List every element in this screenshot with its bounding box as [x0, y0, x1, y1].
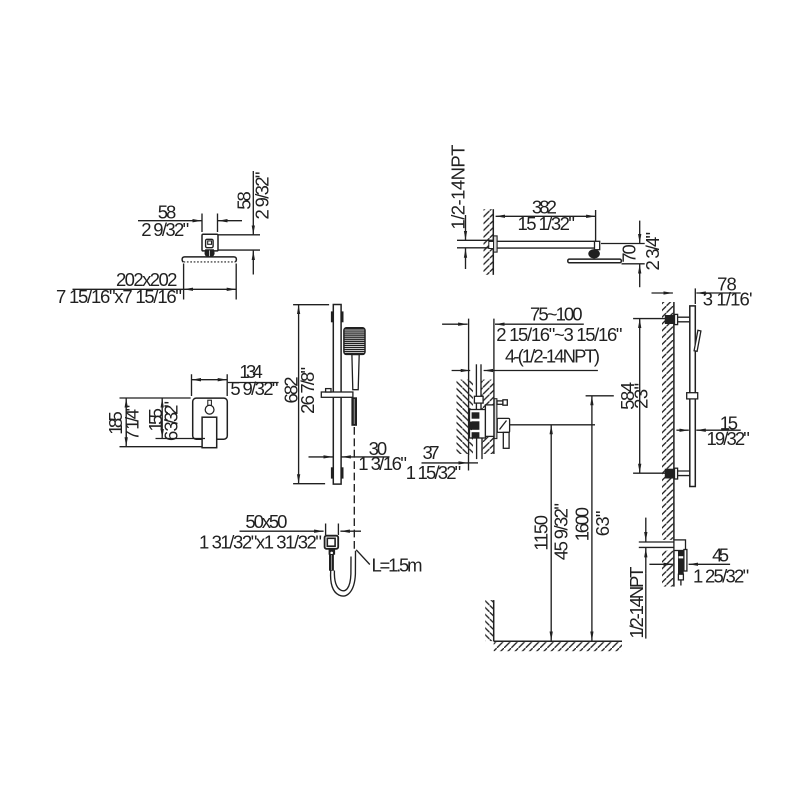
svg-text:1150: 1150 — [531, 515, 552, 551]
slider release knob — [326, 389, 331, 392]
dim 50x50: right arrow line — [340, 530, 361, 532]
dim 382: dimension line with outward arrows — [496, 215, 596, 217]
svg-text:7 15/16"x7 15/16": 7 15/16"x7 15/16" — [56, 286, 182, 307]
nut behind flange — [489, 242, 494, 249]
svg-text:L=1.5m: L=1.5m — [372, 554, 423, 575]
supply pipe bottom — [477, 438, 482, 459]
valve height extension line — [510, 424, 595, 426]
dim 185: dimension line — [125, 398, 127, 447]
diverter knob — [503, 400, 507, 405]
dim 1600: top tick — [586, 395, 614, 397]
dim 15: right arrow line — [696, 429, 740, 431]
supply pipe stub through wall — [457, 240, 497, 248]
trim plate (side, gray) — [494, 399, 497, 439]
svg-text:26 7/8": 26 7/8" — [297, 367, 318, 414]
flange inner detail — [208, 241, 212, 244]
dim 58 height: lower dimension line — [252, 251, 254, 275]
svg-text:63": 63" — [592, 511, 613, 537]
svg-text:2 3/4": 2 3/4" — [642, 232, 663, 271]
bottom supply pipe — [639, 542, 674, 547]
arm ball joint (dark) — [588, 249, 600, 258]
dim 682: dimension line — [298, 305, 300, 484]
slide bar (side) — [690, 306, 696, 487]
dim 70: lower arrow — [639, 264, 641, 287]
dim 58 height: tick at flange top — [219, 234, 261, 236]
svg-text:1 25/32": 1 25/32" — [693, 566, 749, 587]
svg-text:4-(1/2-14NPT): 4-(1/2-14NPT) — [505, 345, 600, 366]
dim 75~100: left extension line — [468, 319, 470, 455]
dim 58 width: dimension line with outside arrows — [138, 220, 242, 222]
svg-text:1600: 1600 — [572, 507, 593, 541]
ball joint (dark) — [204, 249, 214, 257]
wall corner hatch — [485, 600, 494, 641]
svg-text:19/32": 19/32" — [707, 428, 750, 449]
diverter knob neck — [497, 401, 503, 404]
hose loop outer line — [331, 551, 356, 596]
slider block (side) — [687, 393, 698, 399]
wall outlet flange — [325, 536, 339, 549]
dim 134: dimension line with inside outward arrows — [192, 379, 228, 381]
flange inner collar — [206, 239, 214, 247]
dim 70: lower extension line — [622, 263, 645, 265]
cartridge dark detail — [470, 412, 480, 437]
slide bar — [333, 305, 341, 485]
pipe dia dim: right arrow line — [484, 370, 598, 372]
outlet tube end — [678, 574, 683, 580]
hand shower handle (side, angled) — [694, 330, 701, 351]
hose straight segment (dark) — [329, 554, 334, 571]
wall flange (gray) — [494, 236, 498, 252]
hand shower head (striped) — [344, 328, 365, 355]
leader line for L=1.5m — [356, 550, 370, 565]
dim 75~100: left arrow line — [442, 323, 468, 325]
dim 78: right arrow line — [696, 292, 740, 294]
handle pivot circle — [205, 405, 214, 414]
svg-text:37: 37 — [423, 442, 440, 463]
supply pipe top — [476, 364, 481, 397]
dim 382: right extension line — [595, 210, 597, 247]
dim 584: dimension line — [639, 319, 641, 474]
dim 75~100: right arrow line and underline — [495, 323, 584, 325]
slider bracket — [321, 392, 353, 397]
top mount block (dark) — [665, 314, 690, 324]
outlet tube tail line — [680, 580, 682, 586]
wall corner line — [493, 600, 495, 641]
dim 30: left arrow — [309, 456, 334, 458]
hose loop inner line — [334, 557, 351, 591]
outlet hose nut (dark) — [329, 549, 336, 555]
svg-text:45 9/32": 45 9/32" — [551, 503, 572, 560]
svg-text:1/2-14NPT: 1/2-14NPT — [626, 567, 647, 639]
wall outlet inner square — [327, 538, 335, 546]
dim 37: tail line — [469, 462, 479, 464]
dim 1600: dimension line — [591, 396, 593, 641]
dim 682: bottom tick — [293, 483, 325, 485]
white channel for pipe — [473, 380, 481, 454]
shower arm — [497, 241, 595, 248]
dim 584: top tick — [633, 318, 674, 320]
dim 202x202: dimension line with inside outward arrows — [73, 288, 237, 290]
dim 1150: dimension line — [550, 425, 552, 641]
wall hatch band lower — [662, 551, 674, 587]
dim 45: right arrow line — [689, 563, 731, 565]
svg-text:1 31/32"x1 31/32": 1 31/32"x1 31/32" — [199, 532, 322, 553]
trim plate — [193, 398, 228, 439]
dim 45: left arrow line — [649, 563, 673, 565]
hand shower handle — [352, 355, 359, 390]
svg-text:1 3/16": 1 3/16" — [358, 453, 407, 474]
svg-text:70: 70 — [618, 244, 639, 263]
shower head flange (square) — [202, 234, 218, 251]
dim 185: top tick — [120, 397, 191, 399]
dim 78: right extension line — [694, 288, 696, 304]
handle stem — [208, 400, 212, 405]
shower head plate — [182, 257, 236, 262]
svg-text:6 3/32": 6 3/32" — [160, 401, 181, 441]
dim 70: upper arrow — [639, 221, 641, 244]
hose centerline (dashed) — [353, 427, 355, 549]
pivot detail line — [500, 421, 507, 430]
dim 37: tick — [468, 455, 470, 471]
dim 155: dimension line — [161, 398, 163, 439]
svg-text:2 15/16"~3 15/16": 2 15/16"~3 15/16" — [496, 324, 622, 345]
floor hatch — [494, 642, 622, 651]
svg-text:7 1/4": 7 1/4" — [121, 405, 142, 441]
dim 682: top tick — [293, 304, 329, 306]
bottom bracket tabs (dark) — [331, 467, 344, 478]
bottom mount block (dark) — [665, 468, 690, 479]
top bracket tabs (dark) — [331, 311, 344, 322]
svg-text:45: 45 — [712, 545, 729, 566]
wall face line — [492, 209, 494, 275]
hose nut (dark) — [351, 397, 357, 426]
dim 185: bottom tick — [120, 446, 202, 448]
svg-text:3 1/16': 3 1/16' — [703, 288, 753, 309]
wall hatch right column — [481, 380, 494, 454]
handle lever — [202, 417, 217, 448]
dim 78: left arrow line — [652, 292, 673, 294]
dim 50x50: left arrow line — [240, 530, 324, 532]
dim 37: arrow line — [422, 462, 469, 464]
dim 202x202: extension lines — [184, 264, 237, 300]
svg-text:50x50: 50x50 — [245, 511, 287, 532]
dim 584: bottom tick — [633, 472, 674, 474]
cartridge housing — [470, 410, 486, 439]
dim 50x50: extension lines — [326, 524, 339, 536]
pipe OD dim: lower arrow and tail — [645, 548, 647, 639]
svg-text:2 9/32": 2 9/32" — [252, 172, 273, 220]
pipe OD dim: upper arrow — [465, 215, 467, 240]
dim 15: left arrow line — [676, 429, 688, 431]
pipe segment below nut — [476, 403, 481, 410]
dim 75~100: right extension line / wall face — [493, 319, 495, 454]
svg-text:1 15/32": 1 15/32" — [406, 462, 462, 483]
outlet side plate — [684, 550, 687, 572]
wall hatch left column — [457, 380, 474, 454]
dim 58 height: tick at flange bottom — [218, 249, 261, 251]
valve body — [485, 405, 494, 437]
dim 70: upper extension line — [601, 243, 645, 245]
svg-text:5 9/32": 5 9/32" — [230, 378, 278, 399]
pipe OD dim: upper arrow — [645, 518, 647, 542]
dim 134: extension lines — [192, 374, 228, 396]
outlet drop tube (dark) — [678, 551, 684, 575]
pipe dia dim: left arrow line — [452, 370, 471, 372]
pipe OD dim: lower arrow — [465, 248, 467, 269]
handle pivot block — [497, 418, 509, 432]
wall face line — [673, 302, 675, 587]
svg-text:23": 23" — [630, 383, 651, 409]
floor line — [494, 640, 622, 642]
svg-text:2 9/32": 2 9/32" — [141, 219, 189, 240]
wall hatch — [484, 209, 494, 275]
label 134 underline — [228, 382, 279, 384]
outlet elbow block — [674, 540, 686, 551]
dim 58 height: upper dimension line — [252, 171, 254, 235]
union nut — [474, 396, 483, 403]
svg-text:15 1/32": 15 1/32" — [517, 213, 575, 234]
handle lever (down) — [503, 432, 509, 448]
shower head plate (side) — [568, 259, 622, 263]
svg-text:75~100: 75~100 — [530, 304, 583, 325]
wall hatch band upper — [662, 302, 674, 540]
dim 30: right arrow and underline — [341, 456, 389, 458]
arm end elbow — [595, 241, 600, 249]
dim 58 width: extension lines — [202, 214, 218, 233]
dim 155: bottom tick — [156, 438, 206, 440]
